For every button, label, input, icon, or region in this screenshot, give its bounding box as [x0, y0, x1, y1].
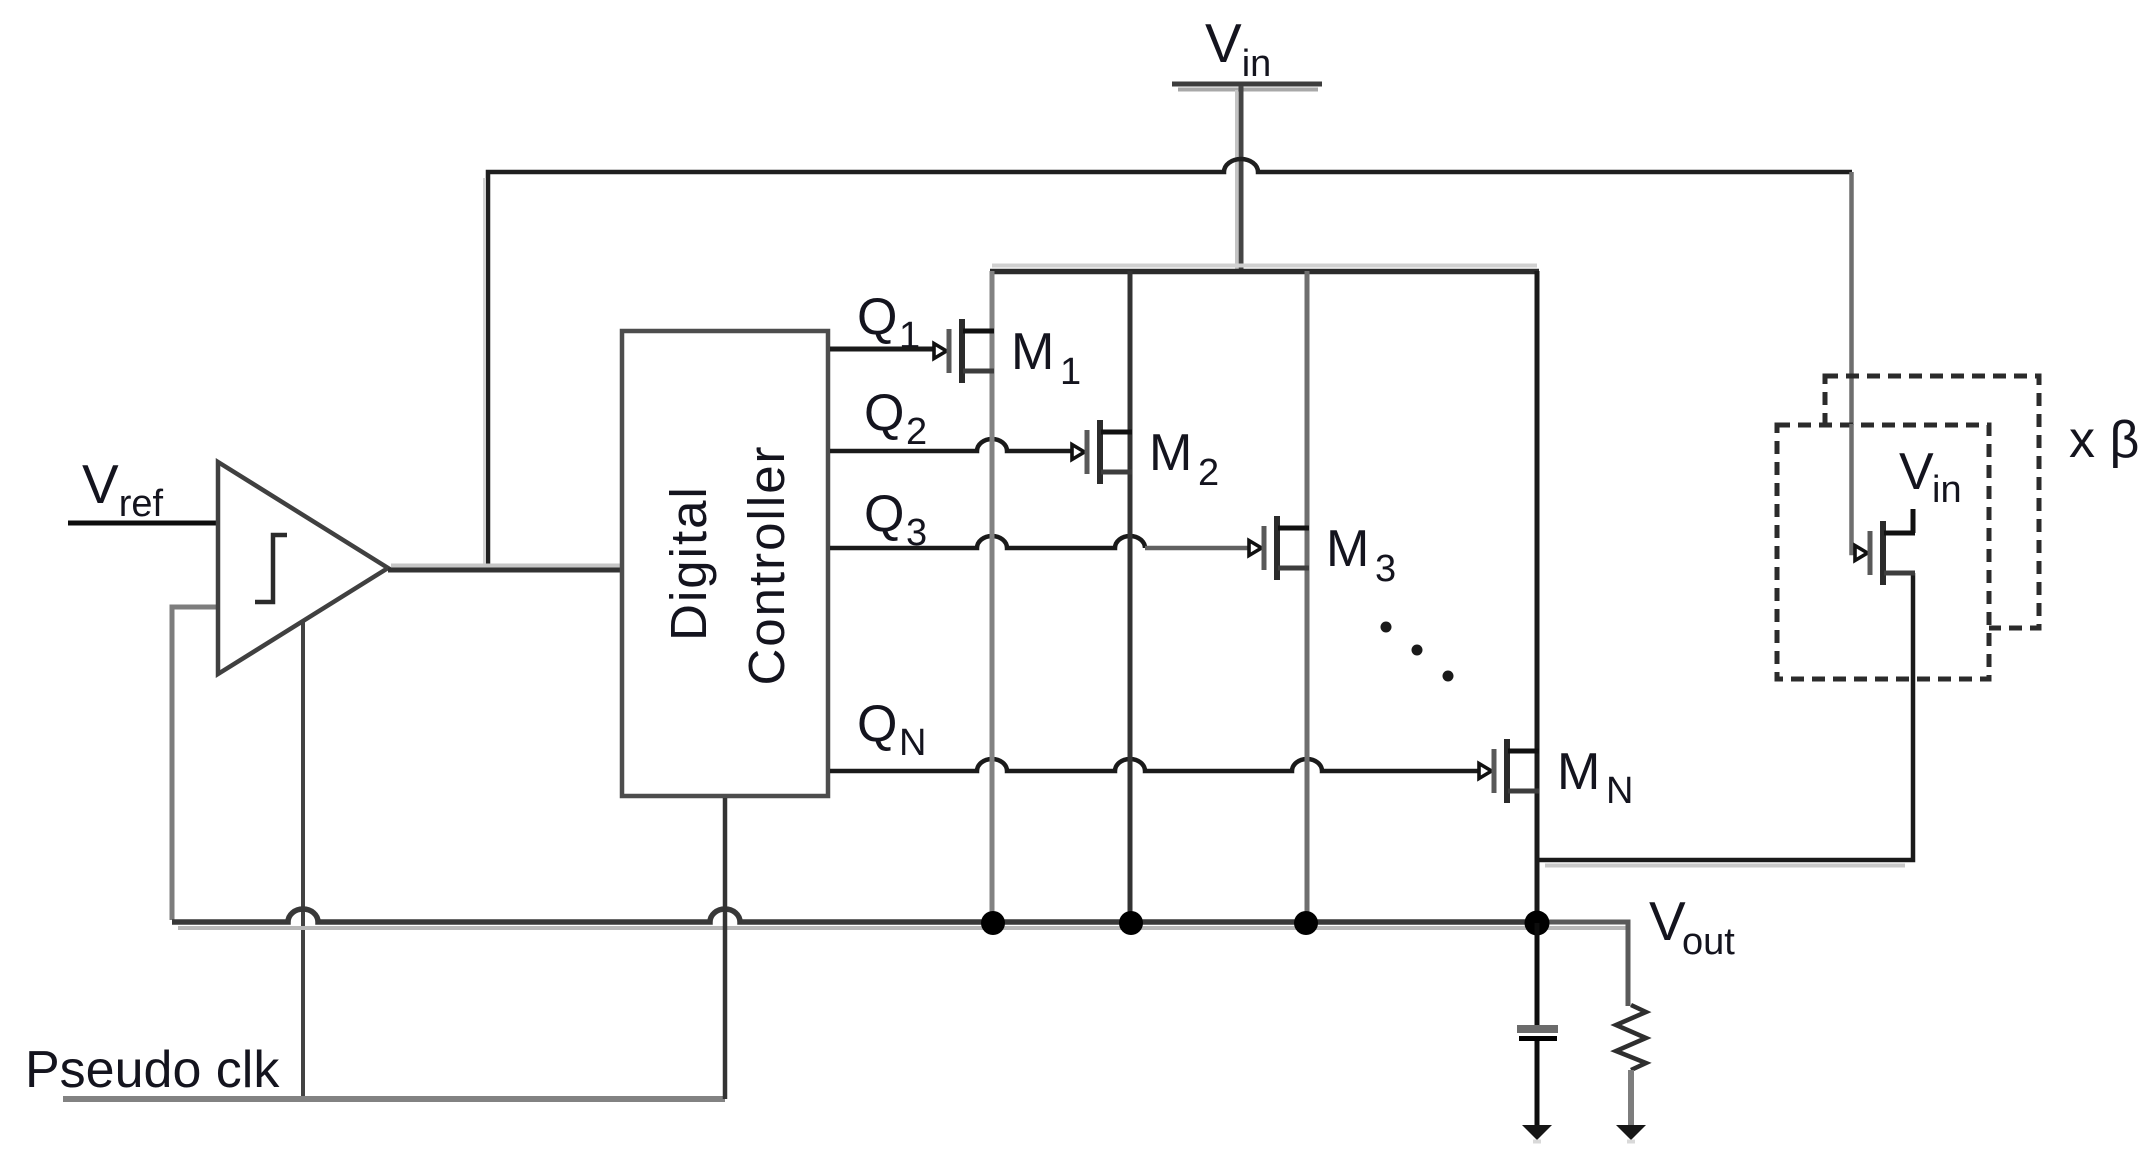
output bus Vout	[172, 909, 1537, 922]
svg-text:V: V	[1899, 443, 1934, 501]
wire pseudo clk line	[63, 1096, 725, 1102]
svg-text:2: 2	[906, 411, 927, 453]
ellipsis dots	[1381, 622, 1392, 633]
wire MN source-drain line	[1535, 271, 1540, 921]
svg-text:3: 3	[1375, 548, 1396, 590]
svg-text:out: out	[1682, 921, 1735, 963]
transistor M3	[1249, 516, 1309, 580]
svg-text:Pseudo clk: Pseudo clk	[25, 1041, 280, 1099]
transistor replica	[1855, 509, 1915, 585]
capacitor C (output)	[1535, 923, 1540, 1025]
svg-text:2: 2	[1198, 452, 1219, 494]
wire M3 source-drain line	[1305, 271, 1310, 921]
svg-text:1: 1	[1060, 351, 1081, 393]
svg-text:M: M	[1557, 743, 1600, 801]
wire pseudo clk tap from comparator	[301, 621, 305, 1099]
power symbol Vin bar	[1172, 82, 1322, 87]
svg-text:V: V	[1649, 890, 1686, 952]
wire replica gate drop	[1849, 172, 1854, 553]
svg-text:Digital: Digital	[660, 485, 717, 641]
replica dashed box (front)	[1777, 425, 1989, 679]
svg-text:M: M	[1011, 323, 1054, 381]
ground (resistor)	[1616, 1125, 1646, 1140]
svg-text:Q: Q	[864, 485, 904, 543]
transistor M2	[1072, 420, 1132, 484]
svg-text:Q: Q	[857, 288, 897, 346]
resistor R (load)	[1616, 1005, 1646, 1070]
wire Q2 gate	[830, 439, 1072, 451]
op-amp comparator U1	[218, 462, 388, 674]
svg-text:N: N	[1606, 770, 1633, 812]
power rail across transistor array	[992, 264, 1537, 268]
junction dot M2	[1119, 911, 1143, 935]
block Digital Controller	[622, 331, 828, 796]
svg-text:x β: x β	[2069, 411, 2139, 469]
wire QN gate	[830, 759, 1479, 771]
wire feedback to inverting input	[172, 607, 218, 920]
wire M1 source-drain line	[990, 271, 995, 921]
svg-text:Q: Q	[857, 695, 897, 753]
transistor MN	[1479, 739, 1539, 803]
junction dot M1	[981, 911, 1005, 935]
svg-text:M: M	[1149, 424, 1192, 482]
svg-text:N: N	[899, 722, 926, 764]
wire replica drain to output node	[1537, 573, 1913, 860]
wire top feedback run (comparator output to replica gate)	[488, 159, 1852, 570]
svg-text:M: M	[1326, 520, 1369, 578]
wire bus to resistor corner	[1537, 922, 1628, 1006]
replica stack dashed box (back)	[1825, 376, 2039, 628]
junction dot M3	[1294, 911, 1318, 935]
svg-text:Controller: Controller	[738, 444, 795, 685]
wire replica source stub	[1911, 509, 1916, 533]
ground (capacitor)	[1522, 1125, 1552, 1140]
wire Vref input	[68, 521, 218, 526]
wire Q1 gate	[830, 347, 934, 352]
wire M2 source-drain line	[1128, 271, 1133, 921]
wire Q3 gate	[830, 536, 1145, 548]
svg-text:in: in	[1932, 469, 1962, 511]
wire Vin drop to array rail	[1235, 90, 1238, 269]
wire comparator output	[391, 564, 620, 568]
transistor M1	[934, 319, 994, 383]
svg-text:Q: Q	[864, 384, 904, 442]
hysteresis symbol	[255, 535, 287, 602]
wire replica gate drop (inside boxes)	[1852, 424, 1856, 553]
junction dot output node	[1525, 911, 1550, 936]
wire controller clock drop	[723, 798, 728, 1099]
